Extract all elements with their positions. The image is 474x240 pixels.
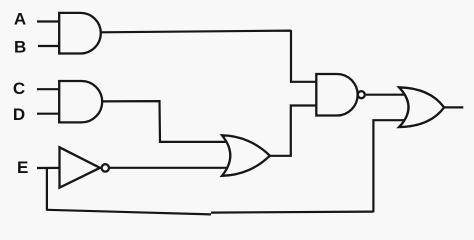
OR gate 2 (output) bbox=[399, 87, 444, 127]
wire feedback bottom right segment bbox=[211, 212, 373, 213]
svg-text:C: C bbox=[13, 79, 25, 98]
wire AND2 output to OR1 top input bbox=[102, 101, 230, 142]
NOT gate triangle (input E) bbox=[60, 147, 101, 187]
wire NAND output to OR2 top input bbox=[366, 94, 406, 96]
AND gate 2 (inputs C,D) bbox=[59, 81, 102, 122]
svg-text:E: E bbox=[17, 158, 28, 177]
wire E branch vertical junction bbox=[46, 168, 48, 211]
svg-text:B: B bbox=[14, 38, 26, 57]
wire OR2 output bbox=[444, 106, 464, 108]
NOT gate bubble bbox=[102, 164, 109, 171]
wire AND1 output to NAND top input bbox=[101, 31, 317, 82]
wire D input bbox=[37, 113, 60, 115]
svg-text:A: A bbox=[14, 10, 26, 29]
wire E input bbox=[37, 167, 61, 169]
AND gate 1 (inputs A,B) bbox=[59, 13, 101, 54]
wire feedback bottom left segment bbox=[47, 210, 211, 215]
wire C input bbox=[37, 88, 60, 90]
NAND gate bubble bbox=[358, 91, 365, 98]
wire NOT output to OR1 bottom input bbox=[109, 167, 230, 169]
NAND gate body bbox=[316, 74, 357, 116]
wire A input bbox=[37, 20, 60, 22]
svg-text:D: D bbox=[13, 105, 25, 124]
wire B input bbox=[38, 45, 60, 47]
OR gate 1 (middle) bbox=[222, 135, 270, 176]
wire feedback vertical to OR2 bottom input bbox=[373, 120, 406, 212]
wire OR1 output to NAND bottom input bbox=[270, 106, 317, 156]
